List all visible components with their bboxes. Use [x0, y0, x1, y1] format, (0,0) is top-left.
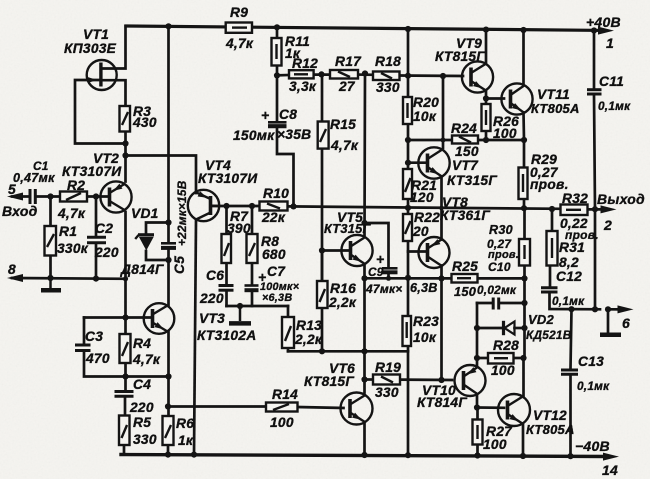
svg-text:КТ3107И: КТ3107И — [62, 164, 122, 179]
wire C11 bottom to output line — [594, 95, 595, 209]
resistor R11 — [272, 38, 282, 66]
node C9 line R22 junction — [405, 275, 411, 281]
svg-text:R10: R10 — [263, 186, 289, 201]
transistor VT5 (KT315G npn) — [341, 235, 372, 266]
svg-text:330: 330 — [375, 385, 399, 400]
wire VT5 collector C9 tap — [365, 223, 389, 267]
svg-text:8: 8 — [8, 262, 16, 277]
resistor R22 — [403, 214, 412, 241]
node VT7 base junction — [405, 160, 411, 166]
svg-text:4,7к: 4,7к — [225, 36, 254, 51]
node VT5 base junction — [319, 247, 325, 253]
svg-text:×35В: ×35В — [277, 127, 311, 142]
svg-text:20: 20 — [412, 224, 429, 239]
node VT5 collector junction — [361, 220, 367, 226]
wire top +40V rail — [126, 26, 604, 30]
node R18-R20 junction — [405, 73, 411, 79]
svg-text:220: 220 — [94, 245, 119, 260]
node C9 bottom junction — [386, 276, 391, 281]
wire R16 top lead / VT5 base column — [321, 251, 324, 282]
svg-text:10к: 10к — [413, 109, 437, 124]
wire R6 bottom to rail — [167, 445, 170, 455]
svg-text:С9: С9 — [368, 265, 384, 279]
node R28 left junction — [474, 355, 480, 361]
wire VD1 bottom tap — [146, 251, 169, 260]
wire VT1 source stub — [102, 80, 126, 106]
wire VT12 collector column — [522, 358, 525, 396]
wire R14 line from VT3 emitter column — [168, 405, 266, 408]
wire R16 bottom lead — [321, 308, 324, 351]
wire R17/R18 junction down to VT5 collector — [363, 73, 366, 235]
svg-text:С13: С13 — [578, 354, 604, 369]
capacitors — [30, 90, 602, 397]
resistor R19 — [373, 375, 400, 385]
svg-text:0,1мк: 0,1мк — [577, 379, 610, 393]
wire R7 to C6 — [225, 263, 228, 285]
svg-text:680: 680 — [262, 247, 286, 262]
node R23 rail junction — [405, 452, 411, 458]
node VT11 emitter junction — [521, 137, 527, 143]
node R16 bottom junction — [319, 348, 325, 354]
wire C8 bottom elbow to R10 right — [277, 127, 294, 206]
svg-text:R14: R14 — [272, 387, 298, 402]
node VD1 bottom junction — [165, 257, 171, 263]
node R26 bottom junction — [483, 137, 489, 143]
transistor VT2 (KT3107I pnp) — [100, 181, 131, 212]
wire R11 bottom to R12 junction — [276, 66, 279, 76]
svg-text:С6: С6 — [206, 268, 224, 283]
svg-text:С3: С3 — [85, 329, 103, 344]
wire R19 line — [365, 378, 374, 381]
resistor R24 — [452, 136, 478, 144]
wire R25 right to R30 bottom — [478, 277, 525, 280]
node R27 rail junction — [474, 452, 480, 458]
wire R8 top lead — [251, 206, 254, 234]
capacitor C10 — [493, 298, 499, 310]
wire right column R25/C10/VD2/R28 — [523, 278, 526, 358]
node output terminal 2 arrow — [601, 205, 617, 213]
resistor R17 — [330, 70, 358, 79]
wire VT11 base tap — [486, 97, 504, 100]
wire VT11 emitter to R29 — [522, 113, 525, 168]
resistor R10 — [260, 202, 288, 211]
svg-text:100: 100 — [270, 415, 294, 430]
wire VT9 emitter to R26 — [485, 91, 488, 105]
wire C2 bottom lead — [95, 243, 98, 279]
resistor R1 — [45, 226, 57, 256]
wire C2 top lead — [95, 197, 98, 237]
svg-text:R32: R32 — [562, 191, 588, 206]
svg-text:0,1мк: 0,1мк — [598, 99, 631, 113]
resistor R20 — [403, 97, 412, 124]
resistor R9 — [226, 23, 252, 33]
capacitor C9 — [382, 268, 398, 272]
svg-text:КТ3107И: КТ3107И — [198, 171, 258, 186]
node R28 right junction — [520, 355, 526, 361]
node R19 left junction — [361, 376, 367, 382]
node C13 rail junction — [567, 453, 573, 459]
wire VT2 collector column down — [124, 212, 127, 334]
wire C11 column top — [593, 31, 596, 89]
wire output junction down to terminal 6 line — [594, 209, 597, 309]
wire R28 line left — [477, 357, 488, 360]
wire VT9 base / VT7 collector column — [442, 76, 445, 148]
wire R31 to C12 — [549, 266, 552, 287]
wire R20 bottom to R21 — [407, 124, 410, 169]
wire VT10 collector down — [476, 395, 479, 408]
resistor R12 — [289, 70, 314, 78]
wire C5 column to VT3 collector — [167, 223, 170, 243]
svg-text:пров.: пров. — [530, 177, 569, 192]
svg-text:470: 470 — [85, 351, 110, 366]
wire C3 left branch — [83, 318, 86, 345]
svg-text:R20: R20 — [413, 95, 439, 110]
wire R1 top lead — [49, 197, 52, 227]
resistor R15 — [318, 122, 329, 149]
svg-text:R25: R25 — [452, 259, 478, 274]
wire R4 bottom junction to VT3 emitter column — [124, 363, 127, 391]
svg-text:R5: R5 — [133, 415, 151, 430]
node rail-C5 junction — [165, 23, 171, 29]
node rail-C11 junction — [591, 27, 597, 33]
svg-text:6,3В: 6,3В — [410, 281, 438, 295]
node R1 bottom ground junction — [47, 275, 53, 281]
wire C12 bottom to terminal 6 line — [550, 293, 601, 310]
node VD2 left junction — [474, 325, 480, 331]
wire C1 to R2 — [36, 195, 60, 198]
svg-text:R22: R22 — [414, 210, 440, 225]
svg-text:−40В: −40В — [575, 438, 610, 454]
svg-text:КТ315Г: КТ315Г — [324, 221, 371, 236]
svg-text:100: 100 — [493, 126, 517, 141]
wire R32 right to output arrow — [588, 208, 607, 211]
node R31 top junction — [549, 206, 555, 212]
resistor R30 — [519, 239, 530, 266]
svg-text:R1: R1 — [59, 224, 77, 239]
svg-text:4,7к: 4,7к — [132, 352, 161, 367]
wire R31 column from output line — [551, 209, 554, 231]
svg-text:КТ315Г: КТ315Г — [447, 173, 497, 188]
node R25 right junction — [521, 275, 527, 281]
node VT12 emitter rail junction — [520, 453, 526, 459]
svg-text:VT12: VT12 — [533, 408, 567, 423]
resistor R18 — [373, 72, 400, 81]
svg-text:14: 14 — [602, 462, 618, 478]
svg-text:0,1мк: 0,1мк — [552, 294, 585, 308]
node VT5 emitter junction — [361, 275, 367, 281]
svg-text:220: 220 — [199, 291, 224, 306]
wire VT5 emitter column down to VT6 collector — [363, 266, 366, 393]
resistor R25 — [452, 274, 478, 283]
ground at terminal 6 — [600, 332, 621, 337]
svg-text:С4: С4 — [133, 377, 151, 392]
node R11/R12 junction — [274, 72, 280, 78]
svg-text:+22мк×15В: +22мк×15В — [175, 180, 189, 246]
wire C8 top lead — [276, 75, 279, 121]
svg-text:22к: 22к — [261, 210, 286, 225]
resistor R31 — [547, 231, 558, 266]
transistor VT3 (KT3102A npn) — [144, 303, 175, 334]
resistor R23 — [403, 316, 412, 346]
node input ground line end junction — [123, 276, 128, 281]
wire R3 bottom to VT2 emitter column — [124, 132, 127, 182]
wire C6 bottom — [225, 291, 228, 307]
svg-text:100: 100 — [491, 363, 515, 378]
svg-text:КТ805А: КТ805А — [526, 422, 575, 437]
resistor R14 — [266, 403, 298, 412]
svg-text:КТ815Г: КТ815Г — [435, 49, 485, 64]
svg-text:0,02мк: 0,02мк — [477, 283, 517, 297]
wire VT8 collector column down to VT10 base line — [440, 278, 443, 380]
svg-text:VT7: VT7 — [452, 158, 479, 173]
svg-text:R15: R15 — [330, 117, 356, 132]
node R29 output junction — [521, 205, 527, 211]
node R17/R18 junction — [362, 70, 368, 76]
svg-text:8,2: 8,2 — [559, 255, 579, 270]
svg-text:330к: 330к — [57, 241, 89, 256]
svg-text:КТ361Г: КТ361Г — [440, 208, 490, 223]
svg-text:1: 1 — [606, 35, 614, 51]
svg-text:R31: R31 — [559, 240, 585, 255]
wire C9 bottom lead — [387, 274, 390, 279]
svg-text:150мк: 150мк — [233, 128, 275, 143]
node VT2 emitter junction — [122, 152, 128, 158]
wire R12 left lead — [277, 74, 289, 77]
svg-text:+: + — [376, 251, 384, 267]
capacitor C7 — [245, 286, 259, 291]
svg-text:2,2к: 2,2к — [328, 295, 357, 310]
svg-text:0,47мк: 0,47мк — [13, 171, 55, 185]
svg-text:150: 150 — [454, 284, 476, 299]
wire R24 right to R29 top — [478, 139, 525, 142]
wire C10/VD2/R28 left column — [476, 303, 479, 367]
wire VT10/VT12 base link — [477, 406, 504, 409]
node VT7 collector R24 junction — [441, 138, 446, 143]
svg-text:R4: R4 — [133, 336, 151, 351]
wire C7 bottom — [251, 291, 254, 307]
resistor R21 — [403, 169, 412, 199]
svg-text:47мк×: 47мк× — [365, 282, 403, 296]
node VT9 emitter junction — [483, 95, 489, 101]
diode VD2 — [504, 321, 515, 335]
wire VT1 gate loop — [75, 80, 126, 144]
node VT7 emitter output junction — [439, 206, 444, 211]
wire R21 bottom to output line — [407, 199, 410, 214]
wire C6/C7 ground connector line — [227, 305, 289, 308]
wire C13 column — [571, 309, 572, 368]
wire R30 top lead — [523, 208, 526, 239]
ground at input (R1/C2 line) — [41, 278, 61, 290]
svg-text:150: 150 — [455, 144, 479, 159]
svg-text:С12: С12 — [556, 269, 582, 284]
resistor R27 — [473, 420, 483, 445]
wire VT7 emitter to VT8 emitter — [440, 177, 443, 240]
wire R29 bottom to output line — [523, 199, 526, 208]
transistor VT4 (KT3107I pnp, mirrored) — [188, 190, 219, 221]
node VT8 collector junction — [438, 275, 444, 281]
node rail-VT9 junction — [483, 27, 489, 33]
svg-text:Выход: Выход — [597, 191, 645, 207]
node R21 output junction — [405, 205, 411, 211]
node C2 bottom junction — [93, 276, 99, 282]
wire R13 bottom to feedback line — [287, 348, 290, 351]
wire C4 to R5 — [124, 397, 127, 416]
resistor R6 — [163, 416, 174, 445]
wire R20/R24 line — [408, 139, 452, 142]
svg-text:КТ814Г: КТ814Г — [417, 395, 467, 410]
svg-text:10к: 10к — [413, 330, 437, 345]
node VT6 emitter rail junction — [361, 452, 367, 458]
wire VT4 collector column to rail — [194, 221, 196, 455]
capacitor C4 — [115, 392, 134, 397]
node R4 bottom junction — [122, 373, 128, 379]
resistor R2 — [60, 192, 87, 202]
wire VT3 base line — [84, 316, 152, 319]
node VT10 base junction — [438, 377, 444, 383]
svg-text:R28: R28 — [493, 338, 519, 353]
wire VT8 collector to R25 line — [440, 266, 443, 279]
node R1 top junction — [47, 193, 53, 199]
svg-text:2,2к: 2,2к — [294, 332, 323, 347]
node terminal 6 branch junction — [592, 306, 598, 312]
node C13 top junction — [568, 306, 574, 312]
svg-text:4,7к: 4,7к — [57, 206, 86, 221]
node terminal 5 arrow — [7, 193, 23, 201]
wire C7 top lead — [251, 263, 254, 285]
resistor R16 — [317, 281, 328, 308]
resistor R3 — [120, 106, 131, 132]
resistor R29 — [519, 168, 528, 200]
node VT2 base input junction — [93, 193, 99, 199]
svg-text:С2: С2 — [95, 221, 113, 236]
wire R12 right to R17 left — [314, 73, 331, 76]
svg-text:R24: R24 — [451, 121, 477, 136]
svg-text:R2: R2 — [67, 178, 85, 193]
svg-text:С7: С7 — [267, 264, 286, 279]
wire R2 to VT2 base — [87, 195, 109, 198]
svg-text:КП303Е: КП303Е — [64, 41, 117, 56]
svg-text:КТ3102А: КТ3102А — [197, 328, 256, 343]
wire VD2 line right — [515, 327, 525, 330]
wire R7 top lead — [225, 206, 228, 234]
capacitor C12 — [541, 288, 558, 292]
svg-text:4,7к: 4,7к — [330, 138, 359, 153]
node VT7 collector-VT9 base junction — [440, 73, 446, 79]
node VT6 collector junction — [361, 348, 367, 354]
resistor R26 — [482, 104, 491, 131]
wire input terminal 5 line — [12, 195, 29, 198]
transistor VT6 (KT815G npn) — [341, 393, 373, 425]
wire VT7 base tap — [408, 161, 427, 164]
node VD2 right junction — [521, 325, 527, 331]
wire bottom -40V rail — [121, 455, 606, 457]
wire R27 leads — [476, 408, 479, 420]
wire VT1 drain to rail — [102, 26, 126, 69]
capacitor C6 — [219, 286, 234, 291]
resistor R28 — [488, 353, 514, 364]
svg-text:330: 330 — [376, 80, 400, 95]
svg-text:6: 6 — [622, 315, 630, 331]
wire VT5 base tap — [322, 249, 350, 252]
wire VT12 emitter to rail — [522, 424, 525, 456]
resistor R13 — [282, 317, 294, 348]
wire VT4 base line to R10 — [211, 205, 260, 208]
capacitor C8 — [268, 122, 287, 126]
svg-text:R19: R19 — [375, 360, 401, 375]
node VT10 emitter junction — [474, 404, 480, 410]
node R14 line junction — [165, 403, 171, 409]
wire R26 bottom to R24 line — [485, 131, 488, 140]
resistor R7 — [222, 234, 232, 263]
wire C10 line left — [477, 302, 492, 305]
wire VT9 collector to rail — [485, 30, 488, 64]
svg-text:R9: R9 — [230, 5, 248, 20]
capacitor C13 — [561, 370, 578, 374]
svg-text:С8: С8 — [279, 107, 297, 122]
wire R1 bottom lead — [49, 256, 52, 279]
capacitor C3 — [75, 345, 91, 351]
svg-text:+40В: +40В — [586, 14, 621, 30]
svg-text:27: 27 — [338, 79, 356, 94]
svg-text:×6,3В: ×6,3В — [262, 292, 292, 304]
svg-text:VT11: VT11 — [537, 87, 570, 102]
svg-text:100: 100 — [483, 437, 507, 452]
wire R22 bottom / VT8 base column — [407, 241, 410, 316]
node R12/R15 junction — [318, 71, 324, 77]
wire output line R10 to R32 — [288, 206, 561, 208]
svg-text:Д814Г: Д814Г — [120, 262, 164, 277]
node VT3 emitter junction — [165, 373, 171, 379]
capacitor C1 — [30, 189, 35, 204]
node terminal 1 arrow +40V — [596, 29, 604, 32]
node rail-R20 junction — [405, 26, 411, 32]
wire VT2 emitter line to VT4 emitter — [126, 156, 197, 194]
svg-text:КТ815Г: КТ815Г — [304, 374, 354, 389]
svg-text:С10: С10 — [488, 260, 511, 274]
transistor VT8 (KT361G pnp) — [419, 237, 450, 268]
wire C10 line right — [501, 302, 525, 305]
svg-text:220: 220 — [129, 400, 154, 415]
node VT4 collector rail junction — [191, 452, 197, 458]
node R8 top junction — [249, 203, 255, 209]
wire R13 top lead — [287, 306, 290, 317]
wire R23 bottom to rail — [407, 346, 410, 455]
wire ground stem terminal 6 — [607, 309, 610, 332]
svg-text:С11: С11 — [599, 74, 624, 89]
wire R28 line right — [514, 357, 524, 360]
svg-text:R16: R16 — [330, 281, 356, 296]
wire R14 to VT6 base — [298, 407, 344, 408]
wire VT11 collector to rail — [522, 30, 525, 86]
svg-text:430: 430 — [132, 115, 157, 130]
ground at C6/C7 — [229, 306, 251, 323]
transistor VT1 (JFET KP303E) — [87, 60, 117, 90]
transistor VT10 (KT814G pnp) — [455, 365, 486, 396]
node C6/C7 ground junction — [237, 303, 243, 309]
transistor VT12 (KT805A npn) — [498, 394, 530, 426]
resistor R4 — [120, 334, 131, 363]
svg-text:R6: R6 — [176, 416, 194, 431]
svg-text:VT1: VT1 — [83, 27, 109, 42]
svg-text:VD1: VD1 — [131, 206, 159, 221]
svg-text:VT3: VT3 — [199, 311, 225, 326]
node VD1 top junction — [165, 219, 171, 225]
resistor R5 — [119, 416, 130, 446]
svg-text:R13: R13 — [296, 318, 322, 333]
transistor VT11 (KT805A npn) — [501, 83, 532, 114]
node terminal 14 arrow -40V — [603, 453, 619, 461]
diode VD1 zener — [135, 235, 154, 251]
